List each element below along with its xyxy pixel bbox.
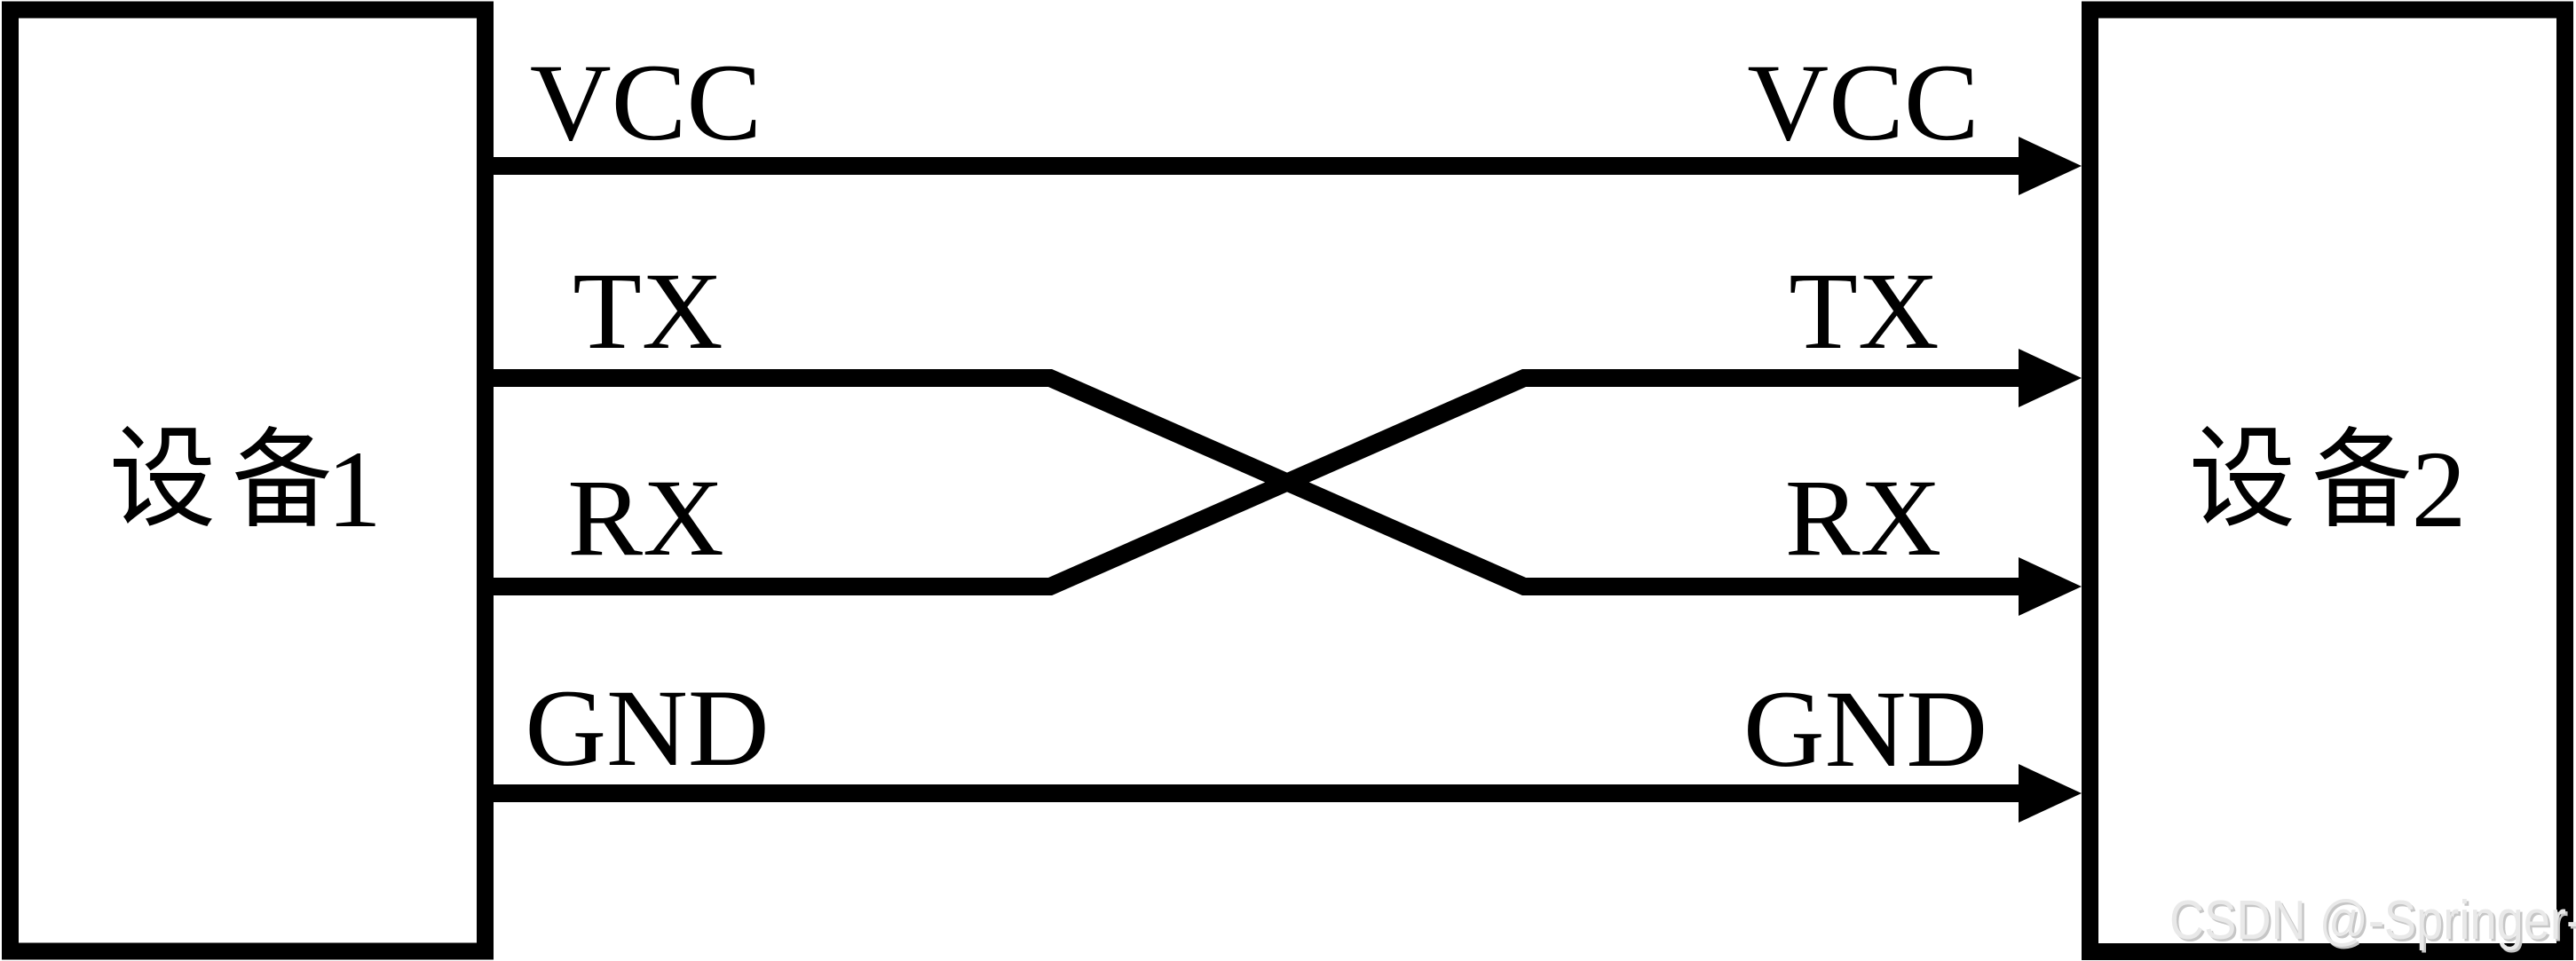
svg-text:GND: GND	[525, 667, 769, 789]
svg-text:TX: TX	[1789, 250, 1939, 372]
svg-text:2: 2	[2412, 429, 2467, 550]
arrowhead GND into device2	[2019, 764, 2082, 823]
arrowhead TX-to-RX into device2	[2019, 557, 2082, 616]
device1 label glyph 设	[114, 426, 212, 526]
device box 设备1 (Device 1)	[11, 10, 486, 951]
svg-text:1: 1	[327, 429, 382, 550]
device2 label glyph 设	[2193, 426, 2292, 526]
wire TX of device1 crossing over to RX of device2	[486, 378, 2027, 587]
svg-text:VCC: VCC	[530, 42, 762, 163]
svg-text:GND: GND	[1743, 668, 1987, 790]
wire VCC (device1 pin VCC to device2 pin VCC)	[486, 157, 2033, 175]
svg-text:RX: RX	[1785, 457, 1942, 579]
arrowhead RX-to-TX into device2	[2019, 349, 2082, 407]
device box 设备2 (Device 2)	[2090, 10, 2565, 952]
svg-text:VCC: VCC	[1747, 42, 1979, 163]
device2 label glyph 备	[2315, 426, 2409, 526]
svg-text:TX: TX	[573, 250, 723, 372]
wire RX of device1 crossing over to TX of device2	[486, 378, 2027, 587]
svg-text:CSDN @-Springer-: CSDN @-Springer-	[2169, 890, 2576, 951]
device1 label glyph 备	[235, 426, 329, 526]
svg-text:RX: RX	[567, 457, 724, 579]
arrowhead VCC into device2	[2019, 137, 2082, 195]
wire GND (device1 pin GND to device2 pin GND)	[486, 784, 2033, 802]
